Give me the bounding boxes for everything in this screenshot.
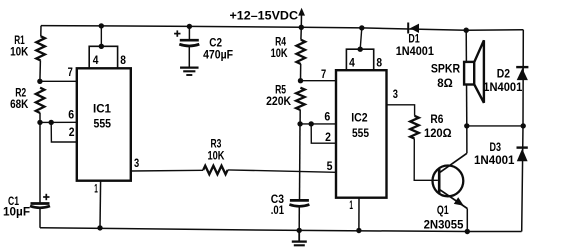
node pin6/pin2 tie IC2 <box>309 121 314 126</box>
wire rail to IC2 bracket <box>360 28 362 49</box>
wire C2 to ground symbol <box>188 46 190 68</box>
capacitor C2 <box>179 40 199 46</box>
power label +12-15VDC <box>230 9 299 23</box>
label D1 <box>408 32 420 46</box>
pin 7 IC2 <box>321 67 326 81</box>
svg-text:8Ω: 8Ω <box>437 76 453 90</box>
svg-text:10K: 10K <box>10 45 28 59</box>
label D3 <box>490 140 502 154</box>
node R2/pin6/C1 <box>37 120 42 125</box>
wire IC2 pin3 to R6 <box>387 105 415 116</box>
wire stub to ground symbol <box>298 230 300 241</box>
resistor R1 <box>36 36 45 60</box>
svg-text:7: 7 <box>68 65 73 79</box>
pin 2 IC1 <box>69 125 75 139</box>
wire pin 2 IC1 <box>51 122 77 142</box>
capacitor C1 <box>30 204 50 208</box>
resistor R4 <box>297 40 306 64</box>
op-amp timer IC1 555 body <box>77 68 131 180</box>
label C1 <box>8 194 19 208</box>
wire C1 to ground rail <box>39 208 41 228</box>
wire rail to speaker <box>465 30 468 126</box>
wire bottom ground rail <box>40 228 522 232</box>
wire right rail (top to bottom) <box>522 30 524 232</box>
wire pin 7 IC1 <box>40 80 77 82</box>
node pin6/pin2 tie <box>49 120 54 125</box>
label SPKR <box>431 61 460 75</box>
wire pin 2 IC2 <box>311 124 336 143</box>
svg-text:+12–15VDC: +12–15VDC <box>230 9 299 23</box>
wire rail to R4 <box>300 27 302 39</box>
svg-text:3: 3 <box>393 87 398 101</box>
node IC1 bracket <box>99 44 104 49</box>
wire R5 to node6 IC2 <box>299 110 301 124</box>
node top rail / IC2 supply <box>359 25 364 30</box>
node IC1 pin1 / ground rail <box>97 225 102 230</box>
svg-text:.01: .01 <box>271 203 284 217</box>
diode D1 1N4001 <box>408 23 419 34</box>
ground under C2 <box>180 68 199 75</box>
svg-text:2: 2 <box>69 125 75 139</box>
label D2 <box>497 67 511 81</box>
label R3 <box>211 136 222 150</box>
op-amp timer IC2 555 body <box>336 70 387 198</box>
wire R4 to node7 IC2 <box>300 64 302 81</box>
svg-text:D2: D2 <box>497 67 511 81</box>
resistor R6 <box>410 116 419 139</box>
svg-text:4: 4 <box>93 53 99 67</box>
node D2/D3 <box>521 123 526 128</box>
svg-text:6: 6 <box>68 107 74 121</box>
value 1N4001 (D3) <box>474 153 515 167</box>
wire rail to C2 <box>188 26 190 40</box>
svg-text:5: 5 <box>327 159 333 173</box>
wire pin 7 IC2 <box>301 80 337 82</box>
svg-text:555: 555 <box>94 116 112 130</box>
pin 8 IC2 <box>376 56 382 70</box>
value 10K (R4) <box>271 46 288 60</box>
svg-text:2: 2 <box>325 130 331 144</box>
value 220K (R5) <box>266 94 291 108</box>
node top rail / +V arrow / R4 <box>299 25 304 30</box>
wire IC2 pins 4-8 bracket <box>346 49 373 70</box>
pin 2 IC2 <box>325 130 331 144</box>
node Q1 emitter / ground rail <box>465 229 470 234</box>
svg-text:3: 3 <box>134 156 139 170</box>
pin 7 IC1 <box>68 65 73 79</box>
node IC2 bracket <box>358 47 363 52</box>
svg-text:6: 6 <box>324 110 330 124</box>
value 68K (R2) <box>10 97 28 111</box>
svg-text:IC1: IC1 <box>93 101 111 115</box>
wire R3 to IC2 pin5 <box>228 170 336 172</box>
polarity + of C1 <box>43 194 49 200</box>
value 470uF (C2) <box>203 48 233 62</box>
node top rail / speaker <box>464 28 469 33</box>
wire rail corner to R1 <box>40 26 42 37</box>
value 120 ohm (R6) <box>424 126 452 140</box>
svg-text:120Ω: 120Ω <box>424 126 452 140</box>
capacitor C3 <box>289 200 309 206</box>
pin 8 IC1 <box>120 53 126 67</box>
value .01 (C3) <box>271 203 284 217</box>
wire node6 down to C3 <box>299 124 302 200</box>
power arrow <box>298 8 305 28</box>
svg-text:8: 8 <box>120 53 126 67</box>
svg-text:10µF: 10µF <box>3 204 30 218</box>
label IC2 <box>351 111 368 125</box>
pin 1 IC1 <box>94 182 98 196</box>
label C2 <box>209 36 222 50</box>
wire speaker node to D2/D3 node <box>467 125 523 127</box>
diode D2 1N4001 <box>516 67 528 80</box>
svg-text:1N4001: 1N4001 <box>483 80 522 94</box>
svg-text:2N3055: 2N3055 <box>424 217 464 231</box>
value 1N4001 (D2) <box>483 80 522 94</box>
node top rail / IC1 supply <box>99 23 104 28</box>
value 2N3055 (Q1) <box>424 217 464 231</box>
svg-text:10K: 10K <box>208 149 225 163</box>
wire pin 6 IC1 <box>40 121 77 123</box>
label C3 <box>271 192 284 206</box>
pin 4 IC1 <box>93 53 99 67</box>
wire R2 to node6 <box>39 113 41 122</box>
pin 3 IC1 <box>134 156 139 170</box>
wire rail to IC1 bracket <box>100 26 102 46</box>
label Q1 <box>437 203 449 217</box>
svg-text:555: 555 <box>352 126 369 140</box>
node R5/pin6/C3 <box>297 121 302 126</box>
wire C3 to ground rail <box>298 206 300 230</box>
value 10K (R1) <box>10 45 28 59</box>
svg-text:1: 1 <box>349 198 353 212</box>
value 555 (IC1) <box>94 116 112 130</box>
node R4/R5/pin7 IC2 <box>298 78 303 83</box>
wire top +V rail <box>41 26 523 31</box>
svg-text:D3: D3 <box>490 140 502 154</box>
label R6 <box>430 112 443 126</box>
svg-text:Q1: Q1 <box>437 203 449 217</box>
pin 6 IC2 <box>324 110 330 124</box>
wire IC1 pins 4-8 bracket <box>89 46 117 68</box>
value 10K (R3) <box>208 149 225 163</box>
label R4 <box>275 35 286 49</box>
wire node6 down to C1 <box>39 122 41 203</box>
transistor Q1 2N3055 body <box>433 166 464 197</box>
wire pin 6 IC2 <box>300 123 336 125</box>
wire R6 to Q1 base <box>414 139 438 181</box>
speaker SPKR 8ohm <box>464 40 484 103</box>
pin 1 IC2 <box>349 198 353 212</box>
svg-text:IC2: IC2 <box>351 111 368 125</box>
pin 6 IC1 <box>68 107 74 121</box>
resistor R5 <box>296 88 305 110</box>
svg-text:68K: 68K <box>10 97 28 111</box>
wire R1 to node7 <box>39 61 42 82</box>
svg-text:4: 4 <box>349 56 355 70</box>
wire IC2 pin1 to ground <box>358 198 360 231</box>
node R1/R2/pin7 <box>37 79 42 84</box>
value 555 (IC2) <box>352 126 369 140</box>
Q1 base bar <box>438 169 441 193</box>
value 8 ohm <box>437 76 453 90</box>
svg-text:1: 1 <box>94 182 98 196</box>
label R5 <box>275 83 286 97</box>
node top rail / C2 <box>187 24 192 29</box>
svg-text:1N4001: 1N4001 <box>396 44 434 58</box>
svg-text:R6: R6 <box>430 112 443 126</box>
node IC2 pin1 / ground rail <box>356 228 361 233</box>
svg-text:SPKR: SPKR <box>431 61 460 75</box>
pin 4 IC2 <box>349 56 355 70</box>
pin 5 IC2 <box>327 159 333 173</box>
diode D3 1N4001 <box>517 148 528 162</box>
wire Q1 emitter <box>440 190 467 232</box>
svg-text:470µF: 470µF <box>203 48 233 62</box>
svg-text:8: 8 <box>376 56 382 70</box>
resistor R3 <box>203 166 227 175</box>
wire IC1 pin1 to ground <box>99 181 102 228</box>
label IC1 <box>93 101 111 115</box>
pin 3 IC2 <box>393 87 398 101</box>
svg-text:10K: 10K <box>271 46 288 60</box>
node speaker bottom <box>464 123 469 128</box>
polarity + of C2 <box>174 30 180 36</box>
svg-text:1N4001: 1N4001 <box>474 153 515 167</box>
value 1N4001 (D1) <box>396 44 434 58</box>
svg-text:7: 7 <box>321 67 326 81</box>
node C3 / ground rail <box>297 228 302 233</box>
resistor R2 <box>36 88 45 113</box>
label R1 <box>14 33 25 47</box>
svg-text:220K: 220K <box>266 94 291 108</box>
label R2 <box>15 85 26 99</box>
value 10uF (C1) <box>3 204 30 218</box>
wire Q1 collector <box>440 126 467 172</box>
ground under rail <box>292 242 307 246</box>
wire IC1 pin3 to R3 <box>131 169 203 172</box>
